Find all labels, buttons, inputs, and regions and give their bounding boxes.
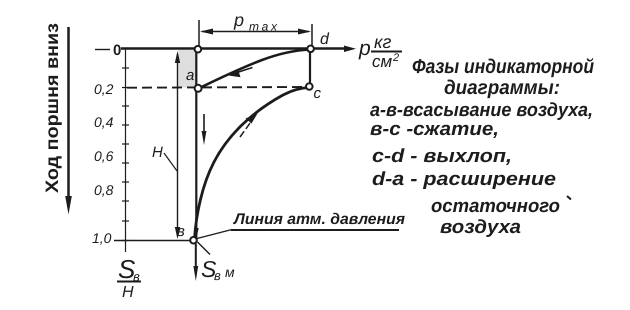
node c [306, 83, 313, 90]
node d [307, 46, 314, 53]
piston stroke direction arrow [67, 27, 70, 200]
expansion curve d-a [200, 50, 310, 89]
svg-text:H: H [122, 284, 134, 301]
H dimension line [177, 54, 179, 236]
svg-text:а-в-всасывание воздуха,: а-в-всасывание воздуха, [370, 100, 593, 121]
svg-text:Ход поршня вниз: Ход поршня вниз [42, 23, 62, 193]
p_max dimension line with arrows [202, 31, 309, 33]
svg-text:0,6: 0,6 [94, 148, 114, 164]
svg-text:остаточного: остаточного [431, 196, 560, 217]
leader to b [197, 230, 232, 239]
Sв suction stroke arrow below b [195, 244, 197, 273]
svg-text:2: 2 [392, 52, 399, 64]
svg-text:кг: кг [374, 32, 391, 52]
svg-text:1,0: 1,0 [92, 230, 112, 246]
p_max dimension: extension lines [198, 20, 200, 47]
svg-text:a: a [186, 67, 194, 84]
gray shaded band between H line and a-b line [179, 50, 197, 88]
svg-text:c: c [314, 85, 322, 102]
svg-text:в: в [177, 223, 185, 240]
1.0 bottom line [114, 240, 191, 242]
top pressure axis [121, 47, 348, 49]
svg-text:м: м [225, 264, 235, 280]
svg-text:0,8: 0,8 [94, 182, 114, 198]
node at top of a-b on axis [195, 46, 202, 53]
exhaust line c-d [309, 49, 311, 87]
stray apostrophe mark [567, 196, 571, 200]
node b [190, 237, 197, 244]
compression curve b-c [195, 88, 309, 240]
dash left of 0 [95, 49, 110, 51]
svg-text:c-d - выхлоп,: c-d - выхлоп, [372, 146, 512, 167]
svg-text:см: см [372, 52, 393, 71]
suction line a-b [195, 49, 197, 240]
svg-text:p: p [233, 10, 244, 30]
svg-text:H: H [152, 144, 163, 161]
0.2 dashed atmospheric level line [127, 86, 305, 89]
svg-text:p: p [358, 37, 371, 60]
svg-text:в: в [214, 268, 221, 283]
svg-text:в-с -сжатие,: в-с -сжатие, [370, 119, 499, 140]
svg-text:max: max [249, 20, 278, 34]
svg-text:d: d [320, 31, 330, 48]
svg-text:0: 0 [113, 42, 121, 59]
svg-text:Фазы индикаторной: Фазы индикаторной [412, 56, 594, 78]
svg-text:воздуха: воздуха [440, 217, 521, 238]
suction direction arrow [203, 114, 205, 136]
svg-text:Линия атм. давления: Линия атм. давления [233, 211, 405, 228]
svg-text:d-a - расширение: d-a - расширение [372, 169, 556, 190]
svg-text:0,2: 0,2 [94, 81, 114, 97]
compression direction arrow [240, 119, 253, 137]
short leader below b [198, 242, 211, 255]
expansion direction arrow [234, 68, 253, 74]
svg-text:диаграммы:: диаграммы: [444, 77, 560, 99]
svg-text:0,4: 0,4 [94, 114, 114, 130]
caption underline [231, 229, 399, 231]
y-axis tick line [125, 49, 127, 252]
suction line end arrowhead at b [194, 228, 199, 239]
node a [195, 85, 202, 92]
